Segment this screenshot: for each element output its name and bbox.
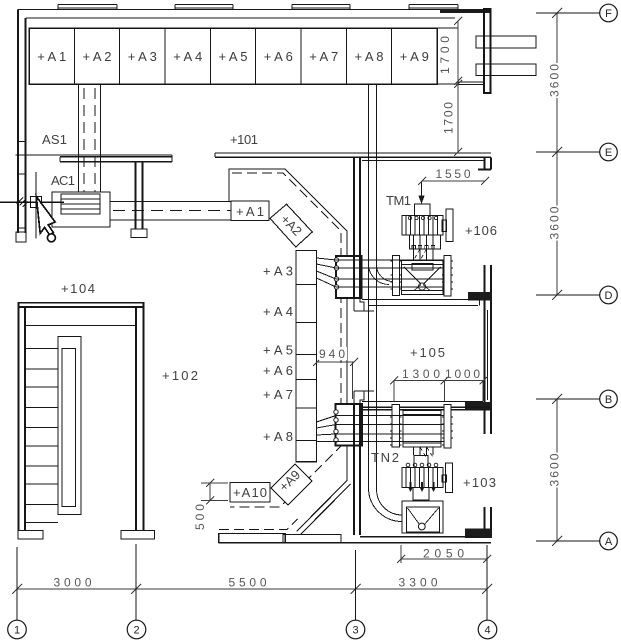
dimension 1550 bbox=[418, 177, 489, 185]
wall +104 left bbox=[19, 302, 26, 531]
svg-text:+101: +101 bbox=[230, 132, 258, 147]
wall +104 top bbox=[18, 303, 144, 307]
wall right segment mid bbox=[485, 265, 492, 434]
wire top wall bbox=[18, 9, 491, 11]
svg-text:2050: 2050 bbox=[423, 547, 464, 561]
svg-text:+103: +103 bbox=[463, 475, 496, 490]
svg-text:1300: 1300 bbox=[402, 367, 440, 381]
svg-text:+102: +102 bbox=[162, 368, 198, 383]
duct AC1 to +A1 bbox=[110, 202, 231, 221]
svg-text:B: B bbox=[605, 394, 612, 406]
svg-text:+A8: +A8 bbox=[355, 49, 384, 64]
TM1 rail right bbox=[444, 256, 451, 297]
TM2 top pins bbox=[406, 463, 410, 467]
dimension 2050 bbox=[397, 545, 491, 563]
svg-text:+A7: +A7 bbox=[309, 49, 338, 64]
wall stub axis D bbox=[468, 292, 492, 301]
cabinet labels A1-A9 bbox=[37, 49, 429, 64]
cables TM1 bbox=[317, 258, 445, 287]
svg-text:1700: 1700 bbox=[442, 102, 456, 134]
window W1 top wall bbox=[58, 5, 117, 10]
transformer TM1 bbox=[391, 204, 454, 296]
TM1 radiator bar bbox=[446, 209, 453, 242]
cabinet +A1 bbox=[231, 201, 269, 221]
busbar outlet 1 bbox=[476, 36, 536, 48]
svg-text:+104: +104 bbox=[61, 281, 95, 296]
svg-text:1700: 1700 bbox=[438, 36, 452, 74]
duct from A2 cell down bbox=[79, 84, 101, 192]
TM2 bottom cap bbox=[413, 488, 429, 501]
svg-text:3600: 3600 bbox=[548, 206, 562, 239]
cable gland hooks TM2 bbox=[334, 410, 338, 414]
corridor cabinet run boundary solid bbox=[229, 169, 347, 481]
wire dashed outer bottom bbox=[219, 519, 298, 530]
wall corridor north band bbox=[215, 153, 491, 157]
svg-text:+A4: +A4 bbox=[173, 49, 202, 64]
wall corridor east lower bbox=[354, 446, 360, 536]
svg-text:F: F bbox=[605, 8, 612, 20]
wire top wall inner line bbox=[26, 17, 455, 19]
svg-text:A: A bbox=[605, 536, 613, 548]
wire below narrow cell bbox=[458, 82, 484, 85]
TM2 body bbox=[402, 468, 443, 488]
stair room +104 bbox=[18, 302, 155, 539]
svg-text:3000: 3000 bbox=[54, 576, 92, 590]
svg-text:TN2: TN2 bbox=[371, 450, 399, 465]
cabinet +A2 rotated bbox=[270, 204, 312, 247]
extension lines bottom bbox=[17, 544, 487, 620]
wall joints left wall bbox=[18, 142, 27, 229]
cabinet dividers bbox=[74, 28, 391, 84]
svg-text:TM1: TM1 bbox=[386, 193, 411, 208]
axis leader lines right bbox=[536, 13, 600, 541]
column labels bbox=[263, 264, 293, 445]
TM1 frame bbox=[402, 261, 444, 295]
svg-text:4: 4 bbox=[484, 625, 490, 637]
wall axis D double line bbox=[362, 300, 480, 306]
svg-text:5500: 5500 bbox=[229, 576, 267, 590]
svg-text:+A5: +A5 bbox=[263, 343, 293, 358]
svg-text:+105: +105 bbox=[410, 345, 445, 360]
wall right top stub bbox=[478, 158, 491, 170]
wire left wall bbox=[18, 10, 26, 234]
stair railing bbox=[58, 337, 81, 515]
dimension 940 bbox=[313, 358, 358, 399]
axis bubble 1 bbox=[8, 620, 27, 639]
AC1 inner block bbox=[61, 194, 100, 214]
outer walls bbox=[16, 5, 493, 543]
dimension 500 bbox=[201, 479, 228, 505]
svg-text:E: E bbox=[605, 147, 612, 159]
wall AC1 east bbox=[136, 162, 143, 229]
svg-text:3600: 3600 bbox=[548, 64, 562, 97]
wall right segment bottom bbox=[485, 507, 492, 538]
wall penetration TM2 bbox=[336, 404, 363, 446]
wall bottom threshold bar bbox=[219, 534, 286, 543]
wall +105 inner top line bbox=[362, 160, 485, 162]
svg-text:1: 1 bbox=[14, 625, 20, 637]
dimension 1700 upper bbox=[454, 17, 462, 85]
glazing line right wall bbox=[487, 310, 489, 400]
TM1 top cap bbox=[415, 204, 431, 216]
duct pair right vertical bbox=[369, 84, 377, 490]
corridor boundary dashed bbox=[230, 173, 341, 507]
cable branch arcs TM1 bbox=[369, 264, 394, 285]
wall stub axis B bbox=[465, 402, 492, 411]
stair landing line bbox=[25, 325, 136, 327]
svg-text:+A3: +A3 bbox=[128, 49, 157, 64]
TM2 rail left bbox=[392, 405, 400, 448]
svg-text:3600: 3600 bbox=[548, 453, 562, 486]
mouse cursor bbox=[36, 197, 55, 236]
stair steps bbox=[25, 349, 58, 523]
equipment AC1 bbox=[52, 192, 110, 227]
wall jamb above TM2 bay bbox=[354, 391, 374, 404]
TM1 rail left bbox=[393, 256, 400, 296]
axis bubble 4 bbox=[478, 620, 497, 639]
axis bubble E bbox=[600, 143, 618, 161]
svg-text:2: 2 bbox=[133, 625, 139, 637]
axis bubble B bbox=[600, 390, 618, 408]
svg-text:AC1: AC1 bbox=[51, 173, 75, 188]
svg-text:AS1: AS1 bbox=[42, 132, 67, 147]
svg-text:+A10: +A10 bbox=[233, 485, 267, 500]
cables TM2 bbox=[317, 416, 445, 442]
wall axis hatch bbox=[17, 198, 29, 208]
axis bubble D bbox=[600, 286, 618, 304]
TM2 junction box bbox=[414, 456, 428, 468]
top switchgear row bbox=[29, 28, 484, 85]
wall top-right corner thick bbox=[440, 9, 491, 13]
window W2 top wall bbox=[175, 5, 233, 10]
transformer TM2 bbox=[390, 405, 453, 534]
wall cap AC1 bbox=[131, 229, 147, 238]
wall chamfer corner diagonals bbox=[297, 481, 351, 535]
svg-text:+A6: +A6 bbox=[264, 49, 293, 64]
wall +104 right foot bbox=[121, 531, 155, 540]
svg-text:3: 3 bbox=[352, 625, 358, 637]
axis bubble F bbox=[600, 4, 618, 22]
dimension 1700 lower bbox=[454, 80, 462, 156]
svg-text:+A7: +A7 bbox=[263, 387, 293, 402]
svg-text:+A9: +A9 bbox=[400, 49, 429, 64]
svg-text:+A4: +A4 bbox=[263, 304, 293, 319]
AC1 outer box bbox=[52, 192, 110, 227]
wall axis B lines bbox=[362, 401, 483, 403]
svg-text:+A3: +A3 bbox=[263, 264, 293, 279]
window W4 top wall bbox=[409, 5, 458, 10]
TM2 fan lines bbox=[414, 447, 434, 455]
svg-text:+A1: +A1 bbox=[236, 204, 264, 219]
svg-text:1000: 1000 bbox=[445, 367, 480, 381]
axis bubble A bbox=[600, 532, 618, 550]
axis bubble 3 bbox=[346, 620, 365, 639]
svg-text:940: 940 bbox=[319, 347, 345, 361]
svg-text:500: 500 bbox=[193, 504, 207, 530]
window W3 top wall bbox=[292, 5, 350, 10]
TM2 oil pit bbox=[402, 501, 443, 533]
svg-text:+A6: +A6 bbox=[263, 363, 293, 378]
cabinet column +A3..+A8 bbox=[296, 251, 317, 462]
svg-text:+A2: +A2 bbox=[83, 49, 112, 64]
wall bottom-right corner bar bbox=[465, 529, 492, 539]
TM1 pin row bbox=[410, 235, 441, 249]
svg-text:3300: 3300 bbox=[399, 576, 438, 590]
cable gland hooks TM1 bbox=[334, 258, 338, 262]
wall +104 right bbox=[136, 302, 144, 531]
busbar outlet 2 bbox=[476, 64, 536, 76]
narrow end cell bbox=[437, 28, 458, 84]
bottom axis dimension line bbox=[12, 584, 492, 594]
svg-text:+A1: +A1 bbox=[37, 49, 66, 64]
axis line with insertion marker bbox=[0, 172, 64, 239]
TM2 radiator bar bbox=[446, 463, 453, 493]
duct bend arcs to pit bbox=[369, 488, 403, 522]
wall penetration TM1 bbox=[336, 256, 362, 298]
wall jamb below TM1 bay bbox=[354, 298, 374, 311]
leader arrow TM1 bbox=[421, 181, 423, 196]
TM2 frame bbox=[403, 411, 441, 448]
TM1 drop lines bbox=[414, 249, 434, 261]
cabinet +A9 rotated bbox=[271, 464, 312, 505]
axis bubble 2 bbox=[127, 620, 146, 639]
svg-text:+A8: +A8 bbox=[263, 429, 293, 444]
svg-text:+A5: +A5 bbox=[219, 49, 248, 64]
cabinet +A10 bbox=[230, 483, 270, 503]
dimension 1300 / 1000 bbox=[390, 377, 488, 402]
wall AS1 south thin bbox=[16, 154, 173, 156]
TM2 rail right bbox=[444, 405, 451, 449]
wall +104 left foot bbox=[18, 531, 43, 540]
svg-text:D: D bbox=[605, 290, 613, 302]
right axis dimension line bbox=[552, 8, 562, 546]
wall corridor east upper bbox=[354, 158, 360, 257]
svg-text:+106: +106 bbox=[465, 223, 497, 238]
TM1 body bbox=[402, 216, 443, 236]
wall bottom double bbox=[219, 537, 491, 543]
svg-text:1550: 1550 bbox=[436, 167, 471, 181]
wall cap left door bbox=[16, 232, 26, 242]
cabinet row outline bbox=[29, 28, 437, 84]
wall AS1 south band bbox=[60, 155, 172, 162]
